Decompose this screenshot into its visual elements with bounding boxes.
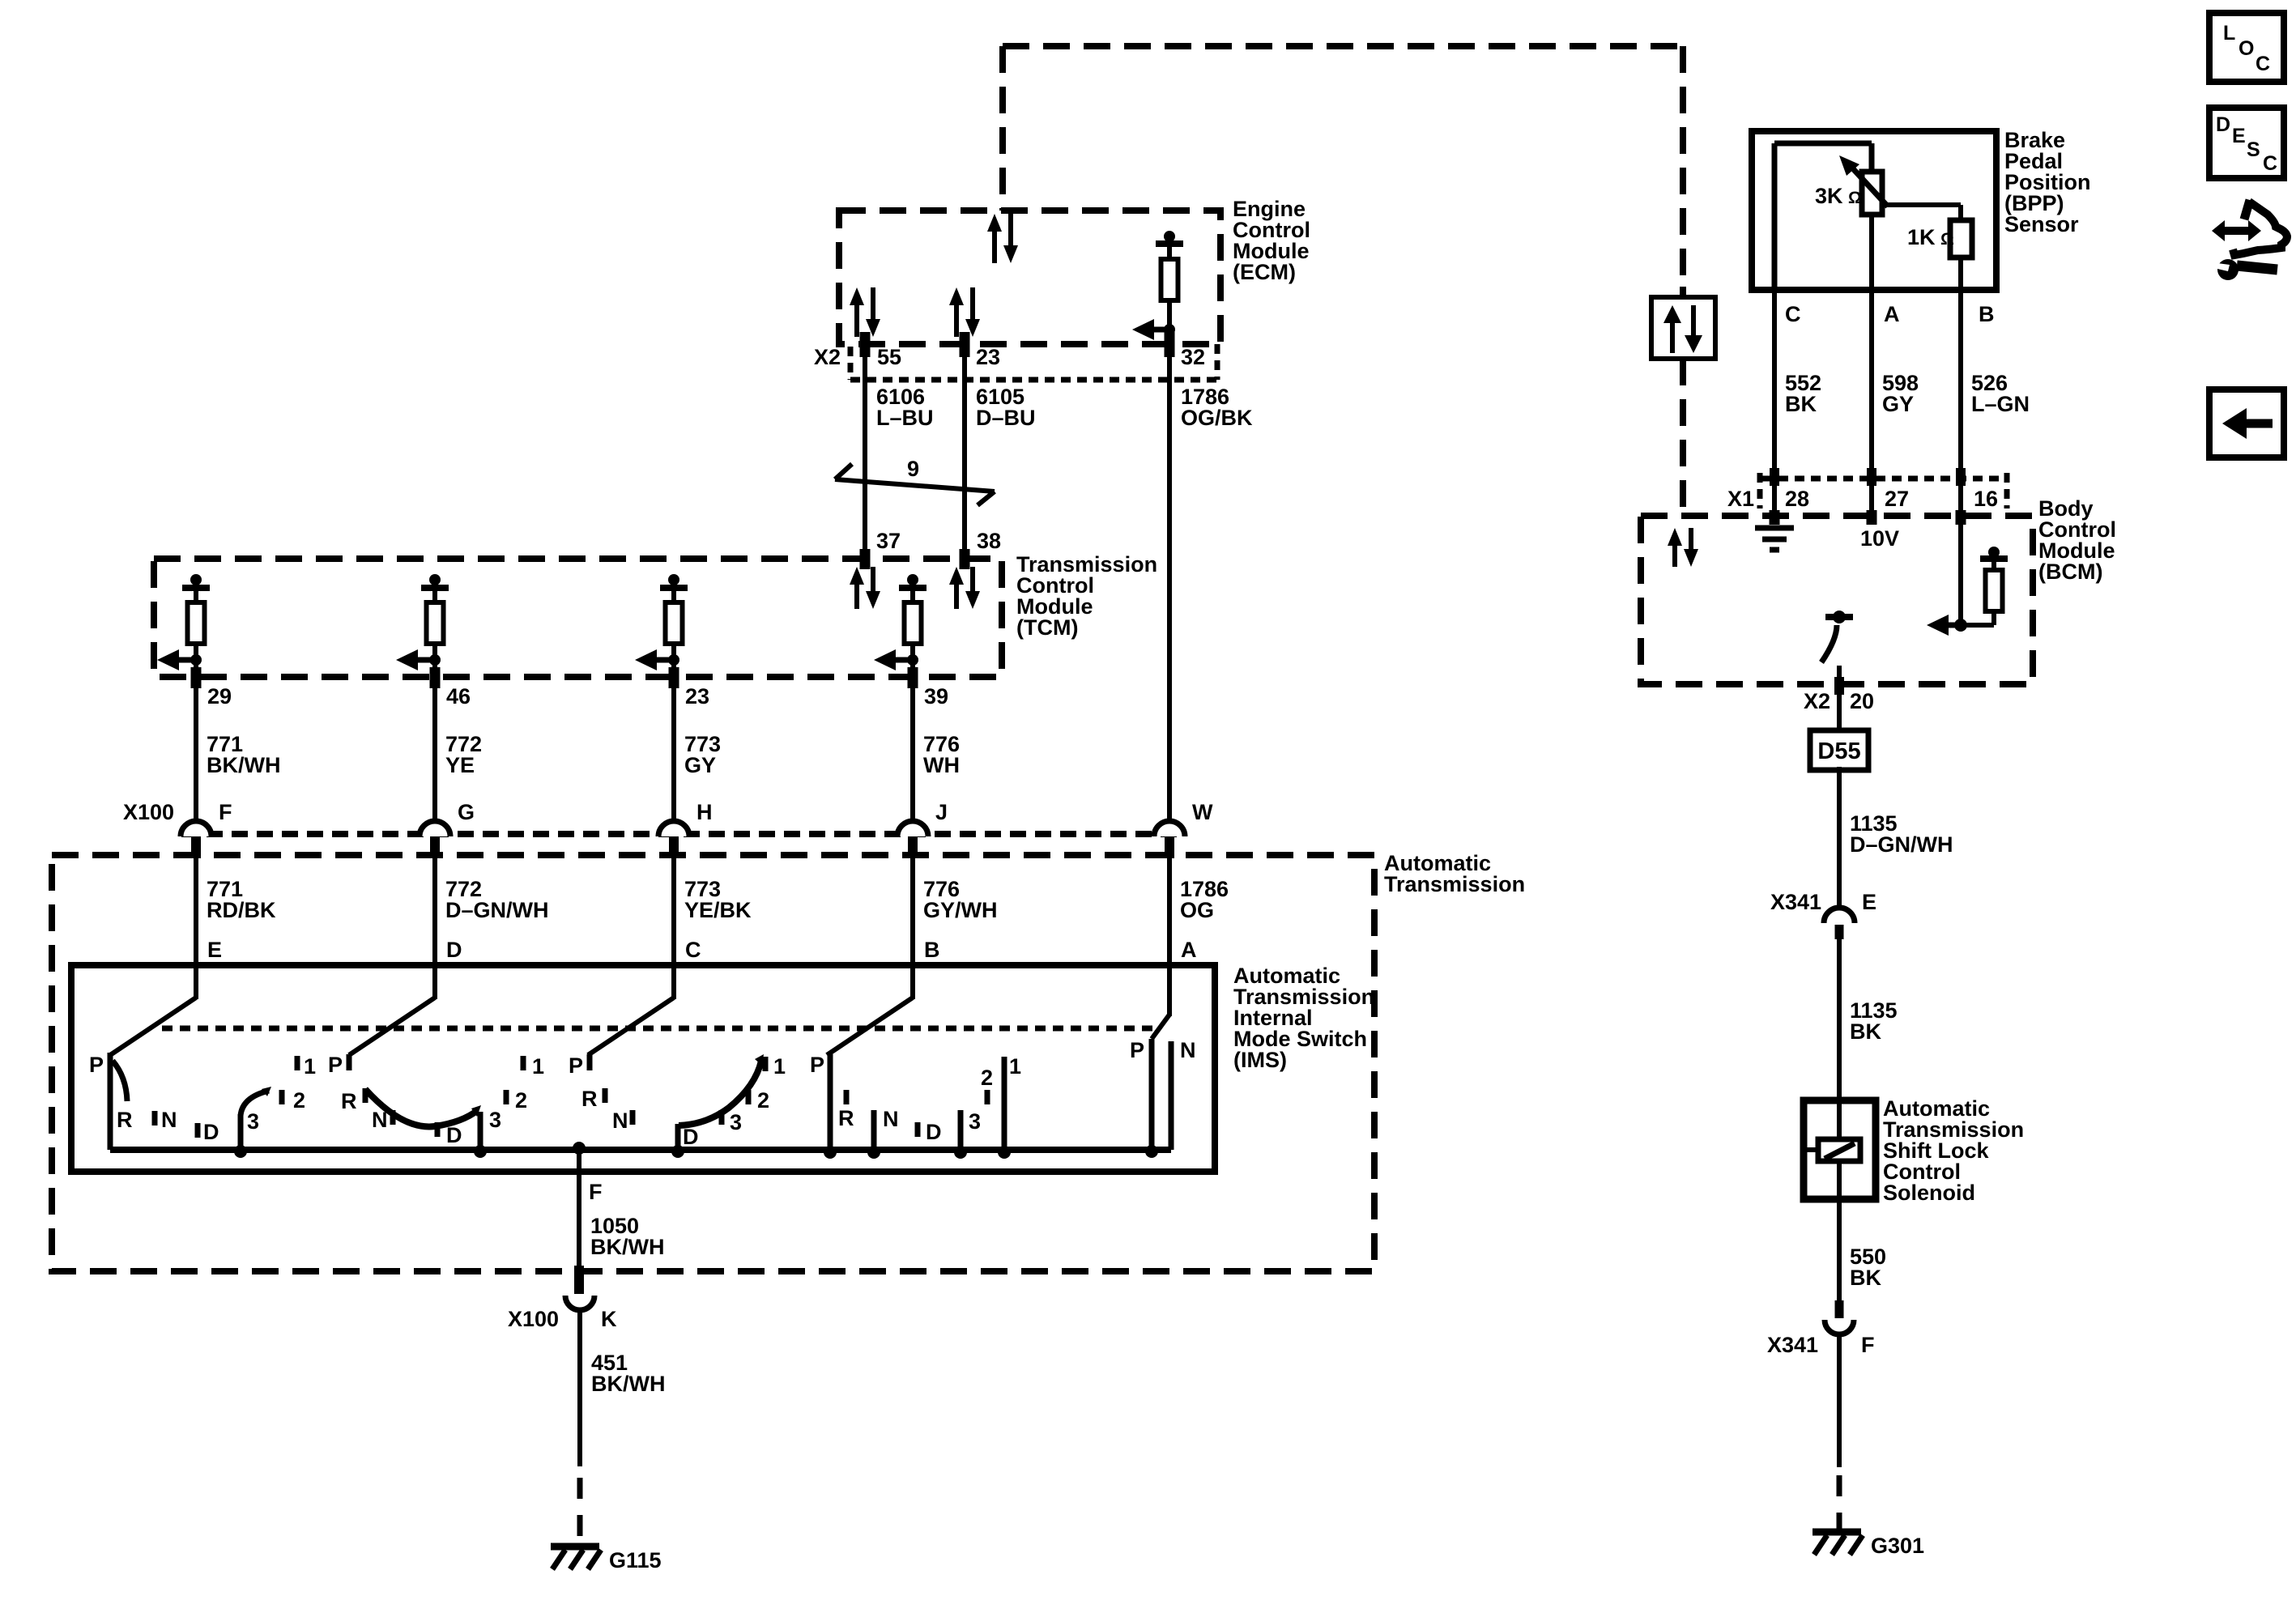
svg-text:R: R — [341, 1089, 357, 1113]
svg-text:R: R — [838, 1106, 854, 1130]
svg-text:B: B — [924, 938, 940, 962]
svg-text:A: A — [1181, 938, 1197, 962]
svg-text:2: 2 — [293, 1088, 305, 1113]
svg-text:R: R — [117, 1108, 133, 1132]
svg-text:D55: D55 — [1817, 738, 1860, 764]
svg-text:H: H — [696, 800, 713, 824]
svg-text:X2: X2 — [814, 345, 841, 369]
svg-text:55: 55 — [877, 345, 901, 369]
svg-text:D: D — [203, 1120, 219, 1144]
svg-text:L–BU: L–BU — [876, 406, 934, 430]
svg-text:WH: WH — [923, 753, 960, 777]
svg-text:20: 20 — [1850, 689, 1874, 713]
svg-text:N: N — [883, 1107, 899, 1131]
svg-text:D: D — [2216, 113, 2230, 136]
svg-text:29: 29 — [207, 684, 232, 709]
svg-text:G115: G115 — [609, 1548, 662, 1572]
svg-text:D: D — [446, 938, 462, 962]
svg-text:RD/BK: RD/BK — [207, 898, 276, 922]
svg-text:GY: GY — [684, 753, 716, 777]
svg-text:X2: X2 — [1804, 689, 1830, 713]
svg-text:Ω: Ω — [1940, 230, 1954, 249]
svg-text:L: L — [2223, 22, 2235, 45]
svg-text:(IMS): (IMS) — [1233, 1048, 1287, 1072]
svg-text:A: A — [1884, 302, 1900, 326]
svg-text:N: N — [612, 1108, 628, 1133]
svg-text:N: N — [161, 1108, 177, 1132]
svg-text:E: E — [207, 938, 222, 962]
svg-text:3: 3 — [730, 1110, 742, 1134]
svg-text:1: 1 — [532, 1054, 544, 1079]
svg-text:2: 2 — [757, 1088, 769, 1113]
svg-text:E: E — [2232, 125, 2246, 147]
svg-text:BK/WH: BK/WH — [207, 753, 280, 777]
svg-text:BK/WH: BK/WH — [591, 1372, 665, 1396]
svg-text:27: 27 — [1885, 487, 1909, 511]
svg-text:38: 38 — [977, 529, 1001, 553]
svg-text:X1: X1 — [1727, 487, 1754, 511]
svg-text:W: W — [1192, 800, 1213, 824]
svg-text:OG/BK: OG/BK — [1181, 406, 1253, 430]
svg-text:G: G — [458, 800, 475, 824]
svg-text:P: P — [328, 1053, 343, 1077]
svg-text:Sensor: Sensor — [2004, 212, 2079, 236]
svg-text:3K: 3K — [1815, 184, 1843, 208]
svg-text:Ω: Ω — [1848, 189, 1862, 207]
svg-text:N: N — [1180, 1038, 1196, 1062]
svg-text:G301: G301 — [1871, 1534, 1924, 1558]
svg-text:L–GN: L–GN — [1971, 392, 2030, 416]
svg-text:R: R — [581, 1087, 598, 1111]
svg-text:D: D — [683, 1125, 699, 1149]
svg-text:C: C — [2263, 152, 2277, 175]
svg-text:3: 3 — [969, 1109, 981, 1134]
svg-text:1: 1 — [773, 1054, 786, 1079]
svg-text:(ECM): (ECM) — [1233, 260, 1296, 284]
svg-text:C: C — [1785, 302, 1801, 326]
svg-text:P: P — [89, 1053, 104, 1077]
svg-text:BK: BK — [1785, 392, 1817, 416]
svg-text:D–GN/WH: D–GN/WH — [1850, 832, 1953, 857]
svg-text:J: J — [935, 800, 948, 824]
svg-text:GY/WH: GY/WH — [923, 898, 998, 922]
svg-text:P: P — [810, 1053, 824, 1077]
svg-text:F: F — [1861, 1333, 1875, 1357]
svg-text:C: C — [685, 938, 701, 962]
svg-text:X341: X341 — [1767, 1333, 1818, 1357]
svg-text:28: 28 — [1785, 487, 1809, 511]
svg-text:D–GN/WH: D–GN/WH — [445, 898, 549, 922]
svg-text:X341: X341 — [1770, 890, 1821, 914]
svg-text:P: P — [1130, 1038, 1144, 1062]
svg-text:2: 2 — [981, 1066, 993, 1090]
svg-text:E: E — [1862, 890, 1876, 914]
svg-text:1: 1 — [1009, 1054, 1021, 1079]
svg-text:37: 37 — [876, 529, 901, 553]
svg-text:(BCM): (BCM) — [2038, 560, 2102, 584]
svg-text:GY: GY — [1882, 392, 1914, 416]
svg-text:F: F — [219, 800, 232, 824]
svg-text:10V: 10V — [1860, 526, 1899, 551]
svg-text:D: D — [446, 1123, 462, 1147]
svg-text:B: B — [1979, 302, 1995, 326]
svg-text:23: 23 — [685, 684, 709, 709]
svg-text:X100: X100 — [123, 800, 174, 824]
svg-text:D–BU: D–BU — [976, 406, 1036, 430]
svg-text:OG: OG — [1180, 898, 1214, 922]
svg-text:S: S — [2247, 138, 2260, 161]
svg-text:2: 2 — [515, 1088, 527, 1113]
svg-text:9: 9 — [907, 457, 919, 481]
svg-text:YE/BK: YE/BK — [684, 898, 752, 922]
svg-text:1K: 1K — [1907, 225, 1936, 249]
svg-text:BK: BK — [1850, 1019, 1881, 1044]
svg-text:Transmission: Transmission — [1384, 872, 1525, 896]
svg-text:46: 46 — [446, 684, 471, 709]
svg-text:BK/WH: BK/WH — [590, 1235, 664, 1259]
svg-text:3: 3 — [247, 1109, 259, 1134]
svg-text:K: K — [601, 1307, 617, 1331]
svg-text:C: C — [2256, 53, 2270, 75]
svg-text:16: 16 — [1974, 487, 1998, 511]
svg-text:23: 23 — [976, 345, 1000, 369]
svg-text:X100: X100 — [508, 1307, 559, 1331]
svg-text:Solenoid: Solenoid — [1883, 1181, 1975, 1205]
svg-text:1: 1 — [304, 1054, 316, 1079]
svg-text:F: F — [589, 1180, 603, 1204]
svg-text:3: 3 — [489, 1108, 501, 1132]
svg-text:(TCM): (TCM) — [1016, 615, 1078, 640]
svg-text:YE: YE — [445, 753, 475, 777]
svg-text:D: D — [926, 1120, 942, 1144]
svg-text:32: 32 — [1181, 345, 1205, 369]
svg-text:P: P — [569, 1053, 583, 1078]
svg-text:N: N — [372, 1108, 388, 1132]
svg-text:39: 39 — [924, 684, 948, 709]
svg-text:BK: BK — [1850, 1266, 1881, 1290]
svg-text:O: O — [2238, 37, 2254, 60]
